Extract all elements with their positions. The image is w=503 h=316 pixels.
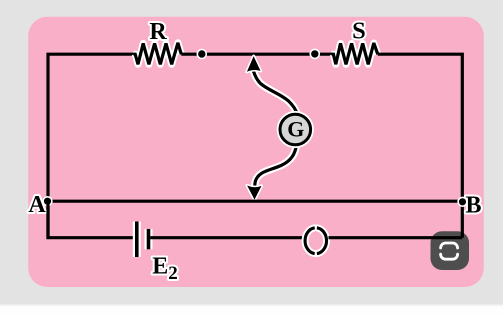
node A (junction dot) (43, 197, 52, 206)
wire: A to B horizontal (47, 200, 462, 203)
wire: galvanometer lower curved lead (255, 145, 296, 186)
node: junction dot right of galvanometer tap (310, 49, 319, 58)
svg-text:2: 2 (168, 263, 178, 284)
arrow up onto top wire (247, 56, 261, 72)
svg-text:G: G (287, 116, 304, 141)
wire: bottom-left segment (A down and right to battery) (48, 201, 135, 238)
battery E2 long plate (133, 222, 141, 258)
wire: bottom middle segment (battery to key) (150, 236, 304, 239)
wire: left side (top-left corner down to bottom wire) (48, 54, 134, 238)
pink background card (28, 17, 484, 287)
resistor S (332, 43, 378, 64)
wire: galvanometer upper curved lead (253, 71, 297, 115)
battery E2 short plate (145, 229, 153, 249)
svg-text:E: E (152, 254, 168, 280)
node: junction dot left of galvanometer tap (197, 50, 206, 59)
svg-text:B: B (465, 192, 481, 218)
svg-text:S: S (352, 18, 366, 45)
node B (junction dot) (458, 197, 467, 206)
svg-text:A: A (28, 192, 46, 218)
wire: top-right segment and right vertical (S to bottom-right corner) (378, 54, 463, 238)
resistor R (134, 43, 182, 65)
galvanometer G (280, 114, 311, 145)
switch key K (open plug key arcs) (305, 228, 315, 254)
wire: top middle segment (R to S) (181, 53, 331, 56)
arrow down onto A-B wire (247, 186, 261, 200)
white strip at bottom of page (0, 306, 503, 316)
refresh icon overlay (dark rounded square with white sync glyph, under wires) (431, 231, 470, 270)
svg-text:R: R (149, 19, 167, 45)
wire: bottom-right segment (key to corner under icon) (329, 236, 463, 239)
